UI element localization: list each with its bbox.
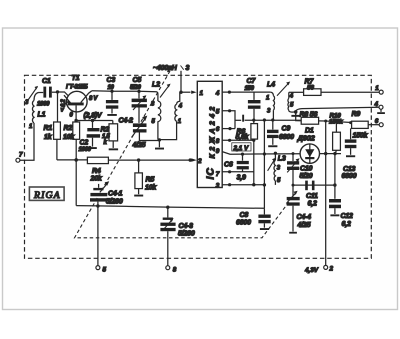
capacitor C2 <box>79 121 101 154</box>
coil L3 <box>268 154 286 185</box>
terminal 5 <box>96 266 107 274</box>
svg-text:1: 1 <box>375 85 379 92</box>
capacitor C6 <box>224 154 249 181</box>
ground bar below node <box>295 112 297 115</box>
svg-text:4: 4 <box>215 90 220 97</box>
wire pin7 row <box>222 171 254 173</box>
trimmer capacitor C5 <box>130 77 147 123</box>
node pin4 <box>228 91 231 94</box>
svg-text:8: 8 <box>216 138 220 145</box>
wire AF row to C12 <box>293 184 335 186</box>
coil L4 <box>266 82 296 121</box>
svg-text:L4: L4 <box>267 82 275 89</box>
svg-text:5/280: 5/280 <box>106 199 123 206</box>
svg-text:8: 8 <box>173 267 177 274</box>
svg-text:C2: C2 <box>80 140 89 147</box>
node C10 top <box>292 152 295 155</box>
trimmer capacitor C10 <box>287 154 313 186</box>
svg-text:6: 6 <box>375 118 379 125</box>
svg-text:56: 56 <box>307 85 314 92</box>
ground bar C9 <box>268 145 277 147</box>
node tap 3 junction <box>179 91 182 94</box>
svg-text:R8 56: R8 56 <box>300 112 318 119</box>
svg-text:10k: 10k <box>63 134 75 141</box>
wire R8 row to R9/R10 <box>326 121 352 123</box>
wire tap3 riser to dashed border <box>180 71 182 92</box>
node pin8 <box>228 139 231 142</box>
svg-text:1: 1 <box>200 90 204 97</box>
resistor R1 <box>44 92 61 160</box>
svg-text:R4: R4 <box>92 168 101 175</box>
svg-text:150: 150 <box>245 86 255 92</box>
svg-text:6,2: 6,2 <box>342 221 351 228</box>
resistor R2 <box>63 122 80 206</box>
ground bar R5 <box>134 195 143 197</box>
wire pin5 bend <box>222 111 235 129</box>
svg-text:T1: T1 <box>72 75 80 82</box>
node base/R2 <box>74 119 77 122</box>
diode D1 D902 <box>297 128 320 164</box>
variable capacitor C4-4 <box>286 185 311 231</box>
svg-text:R1: R1 <box>44 125 53 132</box>
node C4-1 column on bus <box>96 204 99 207</box>
svg-text:ГТ-315Б: ГТ-315Б <box>66 85 89 91</box>
resistor R9 <box>352 111 380 140</box>
wire node down to R8 <box>296 112 302 121</box>
svg-text:5/280: 5/280 <box>178 231 195 238</box>
wire supply bus with R4 <box>57 159 88 161</box>
svg-text:10: 10 <box>108 85 115 91</box>
RIGA logo box <box>29 187 64 201</box>
svg-text:~400µH: ~400µH <box>153 65 178 72</box>
wire C4-1 to terminal 5 <box>97 202 99 266</box>
svg-text:5: 5 <box>216 108 220 115</box>
node C9/L4 on rail <box>271 118 274 121</box>
svg-text:R2: R2 <box>64 125 73 132</box>
svg-text:6,2: 6,2 <box>308 201 317 208</box>
terminal 7 <box>16 152 23 163</box>
svg-text:4/25: 4/25 <box>297 222 311 229</box>
ground bar C12 <box>330 214 339 216</box>
node L3 top <box>274 152 277 155</box>
svg-text:C1: C1 <box>42 78 51 85</box>
svg-text:3: 3 <box>216 182 220 189</box>
node C5 top <box>137 90 140 93</box>
ground bar C8 <box>260 228 269 230</box>
node R8/terminal2 riser <box>324 120 327 123</box>
wire base row <box>76 120 113 122</box>
node C4-4 top <box>292 184 295 187</box>
antenna coil L1 <box>25 86 46 130</box>
capacitor C1 <box>37 78 58 108</box>
svg-text:1000: 1000 <box>37 102 50 108</box>
wire pin6 row <box>222 128 235 130</box>
svg-text:4/25: 4/25 <box>132 142 146 149</box>
svg-text:C4-1: C4-1 <box>108 190 123 197</box>
capacitor C13 <box>342 128 357 180</box>
wire pin9 detector row to D1 <box>222 152 300 155</box>
variable capacitor C4-1 <box>90 181 123 205</box>
node R2 on bus <box>74 158 78 162</box>
svg-text:2,1 V: 2,1 V <box>233 145 250 152</box>
node D1 output <box>333 152 336 155</box>
wire lower ground bus <box>76 206 264 209</box>
svg-text:7: 7 <box>216 171 220 178</box>
wire node to terminal 4 <box>296 107 379 111</box>
resistor R7 <box>289 79 379 96</box>
variable capacitor C4-3 <box>160 207 194 237</box>
node C3 top <box>110 90 113 93</box>
wire long vertical to ground bus <box>263 120 265 208</box>
svg-text:6800: 6800 <box>236 219 251 226</box>
resistor R5 <box>135 160 157 194</box>
node pin3/R6 bottom <box>252 183 255 186</box>
svg-text:C8: C8 <box>240 212 249 219</box>
capacitor C7 <box>245 78 261 120</box>
svg-text:10k: 10k <box>145 185 157 192</box>
node before pin2 <box>189 158 192 161</box>
wire C4-3 to terminal 8 <box>167 231 169 266</box>
node L4 secondary bottom <box>294 110 298 114</box>
node rail/down vertical <box>263 118 266 121</box>
node rail crossing detector row <box>263 152 266 155</box>
wire node to IC pin1 with arrow <box>181 91 191 93</box>
resistor R4 <box>87 157 190 182</box>
variable capacitor C4-2 <box>119 116 160 149</box>
svg-text:5/20: 5/20 <box>130 85 141 91</box>
node R5 top <box>137 158 140 161</box>
node R6/C7 on rail <box>252 119 255 122</box>
svg-text:(2,8)V: (2,8)V <box>84 113 103 120</box>
wire pin5/6 branch to rail with contact bar <box>235 119 241 121</box>
wire pin3 row <box>222 184 264 186</box>
svg-text:4,3V: 4,3V <box>304 267 319 274</box>
svg-text:8 V: 8 V <box>89 96 98 102</box>
svg-text:7: 7 <box>19 152 23 159</box>
svg-text:1k: 1k <box>44 134 53 141</box>
svg-text:L3: L3 <box>278 156 286 163</box>
svg-text:C4-3: C4-3 <box>179 223 194 230</box>
svg-text:150k: 150k <box>353 133 369 140</box>
svg-text:20k: 20k <box>90 176 103 183</box>
svg-text:IC: IC <box>205 167 217 180</box>
capacitor C3 <box>106 77 118 114</box>
ground bar C2 <box>88 147 97 149</box>
svg-text:6800: 6800 <box>342 173 357 180</box>
terminal 1 <box>375 85 383 94</box>
node C1/R1/emitter <box>56 90 59 93</box>
node R10 top <box>335 120 338 123</box>
capacitor C11 <box>305 181 318 208</box>
svg-text:3,9: 3,9 <box>237 175 246 182</box>
svg-text:3: 3 <box>186 65 190 72</box>
svg-text:6: 6 <box>216 126 220 133</box>
capacitor C8 <box>236 208 271 227</box>
capacitor C12 <box>329 199 353 228</box>
svg-text:4: 4 <box>374 101 379 108</box>
svg-text:C7: C7 <box>247 78 257 85</box>
svg-text:5/20: 5/20 <box>300 173 313 180</box>
terminal 4 <box>374 101 385 114</box>
label 2,1V boxed <box>232 143 251 152</box>
svg-text:R5: R5 <box>146 177 155 184</box>
svg-text:2: 2 <box>197 158 202 165</box>
svg-text:9: 9 <box>216 148 220 155</box>
node pin8/R6 <box>252 139 255 142</box>
svg-text:0,2: 0,2 <box>61 99 67 107</box>
ground bar C3 <box>107 114 117 116</box>
node pin3 rail <box>263 183 266 186</box>
svg-text:C4-4: C4-4 <box>297 214 312 221</box>
node C4-3 column on bus <box>166 206 169 209</box>
wire terminal 2 riser <box>325 121 327 265</box>
ground bar R3 <box>109 148 118 150</box>
coil L2 <box>151 82 183 140</box>
wire D1 to R10 bottom node <box>320 153 342 155</box>
wire AGC rail to R8 <box>245 119 302 121</box>
svg-text:6800: 6800 <box>279 134 294 141</box>
ground bar C13 <box>346 155 355 157</box>
svg-text:5: 5 <box>103 267 107 274</box>
transistor T1 <box>61 75 103 120</box>
terminal 8 <box>166 266 177 274</box>
svg-text:150k: 150k <box>329 119 343 126</box>
resistor R3 <box>101 121 118 148</box>
node pin6 <box>228 127 231 130</box>
resistor R8 <box>300 112 326 125</box>
wire node to transistor <box>58 92 69 96</box>
op-amp U1 IC K2ZHA242 <box>197 81 222 189</box>
wire arrow into IC pin2 <box>191 158 196 161</box>
svg-text:R3: R3 <box>101 127 110 134</box>
svg-text:RIGA: RIGA <box>33 190 61 201</box>
resistor R6 <box>236 120 258 185</box>
node detector/terminal2 riser <box>324 152 327 155</box>
node C6 top <box>241 153 244 156</box>
wire D1 node down to C12 <box>334 154 336 199</box>
svg-text:C9: C9 <box>282 126 291 133</box>
svg-text:C6: C6 <box>224 162 233 169</box>
ground bar L2 <box>158 140 160 147</box>
wire pin8 row to R6 bottom <box>222 139 254 141</box>
svg-text:C13: C13 <box>343 166 356 173</box>
tuning gang dashed link line <box>75 71 297 238</box>
svg-text:C4-2: C4-2 <box>119 118 134 125</box>
wire terminal7 to L1 <box>20 123 34 160</box>
label ~400uH 3 <box>153 65 190 72</box>
terminal 6 <box>375 118 383 127</box>
node pin3 <box>228 183 231 186</box>
wire collector row to L2 <box>92 91 158 101</box>
svg-text:R9: R9 <box>352 111 361 118</box>
node C2 top <box>91 119 94 122</box>
node C13 top <box>349 121 352 124</box>
dashed schematic border box <box>25 75 372 258</box>
node L2 bottom junction <box>158 138 161 141</box>
svg-text:2: 2 <box>329 266 334 273</box>
terminal 2 <box>304 265 334 274</box>
svg-text:C12: C12 <box>341 213 354 220</box>
svg-text:L1: L1 <box>38 112 46 119</box>
svg-text:C3: C3 <box>107 77 116 84</box>
svg-text:L2: L2 <box>152 82 160 89</box>
node pin7 <box>228 170 231 173</box>
node C12 top <box>333 183 336 186</box>
svg-text:C5: C5 <box>133 77 142 84</box>
resistor R10 <box>329 113 343 154</box>
svg-text:Д902: Д902 <box>297 134 316 143</box>
svg-text:C10: C10 <box>300 166 313 173</box>
node pin5 <box>228 109 231 112</box>
ground bar C4-4 <box>289 232 297 234</box>
svg-text:C11: C11 <box>306 193 318 200</box>
wire pin4 row <box>222 91 270 93</box>
capacitor C9 <box>267 120 294 145</box>
